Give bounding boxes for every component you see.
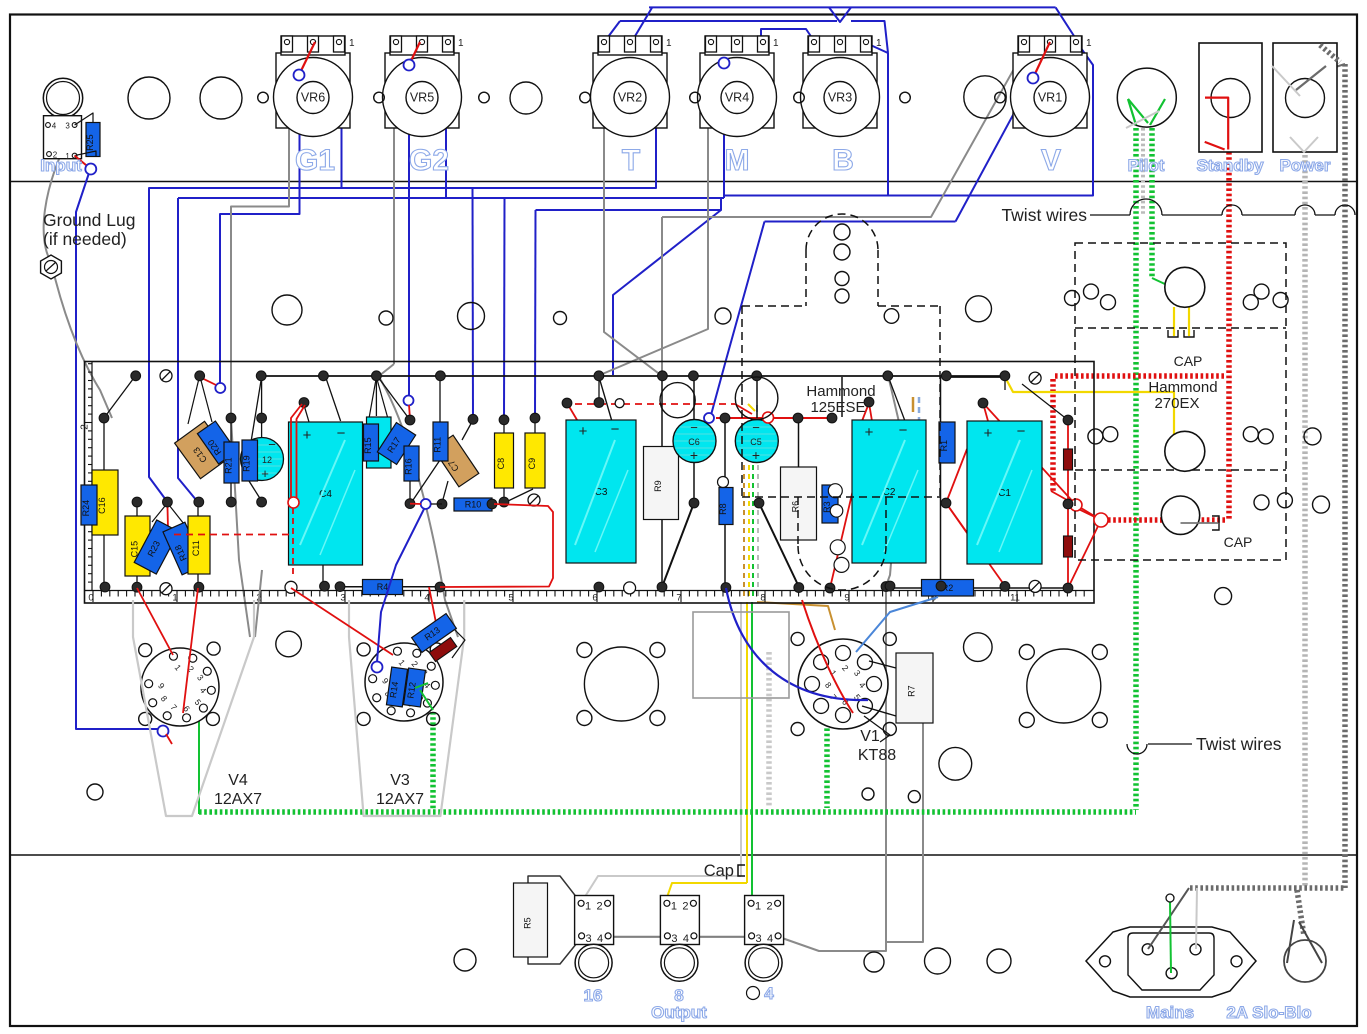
svg-text:−: − — [337, 425, 346, 442]
svg-text:270EX: 270EX — [1154, 395, 1199, 412]
svg-text:R21: R21 — [224, 457, 234, 474]
svg-text:+: + — [984, 425, 993, 442]
svg-text:3: 3 — [586, 933, 592, 945]
svg-text:R24: R24 — [81, 500, 91, 517]
svg-text:R19: R19 — [242, 455, 252, 472]
svg-text:Output: Output — [651, 1003, 707, 1022]
svg-text:4: 4 — [424, 593, 429, 604]
svg-text:3: 3 — [65, 122, 70, 131]
svg-text:VR5: VR5 — [410, 91, 434, 105]
svg-text:0: 0 — [88, 593, 93, 604]
svg-text:R11: R11 — [433, 437, 443, 453]
svg-text:11: 11 — [1010, 593, 1020, 604]
svg-text:R25: R25 — [85, 134, 95, 151]
svg-text:VR2: VR2 — [618, 91, 642, 105]
svg-text:+: + — [579, 423, 588, 440]
svg-text:12AX7: 12AX7 — [214, 791, 262, 808]
svg-text:R4: R4 — [377, 582, 389, 592]
svg-text:(if needed): (if needed) — [43, 229, 127, 249]
svg-text:VR1: VR1 — [1038, 91, 1062, 105]
svg-text:R6: R6 — [791, 501, 801, 513]
svg-text:G1: G1 — [295, 144, 335, 177]
svg-text:V: V — [1041, 144, 1061, 177]
svg-text:8: 8 — [760, 593, 765, 604]
svg-text:4: 4 — [52, 122, 57, 131]
svg-text:+: + — [690, 447, 698, 463]
svg-text:−: − — [690, 420, 698, 435]
svg-text:M: M — [725, 144, 750, 177]
svg-text:Twist wires: Twist wires — [1196, 734, 1282, 754]
svg-text:R10: R10 — [465, 500, 482, 510]
svg-text:9: 9 — [844, 593, 849, 604]
svg-text:2A Slo-Blo: 2A Slo-Blo — [1226, 1003, 1311, 1022]
svg-text:G2: G2 — [409, 144, 449, 177]
svg-text:+: + — [261, 466, 269, 481]
svg-text:4: 4 — [764, 984, 774, 1003]
svg-text:4: 4 — [767, 933, 773, 945]
svg-text:12: 12 — [262, 455, 272, 465]
svg-text:Standby: Standby — [1196, 156, 1264, 175]
svg-text:2: 2 — [682, 900, 688, 912]
svg-text:T: T — [622, 144, 640, 177]
svg-text:C11: C11 — [191, 540, 201, 556]
svg-text:1: 1 — [666, 38, 672, 49]
svg-text:−: − — [611, 421, 620, 438]
svg-text:3: 3 — [671, 933, 677, 945]
svg-text:12AX7: 12AX7 — [376, 791, 424, 808]
svg-text:R15: R15 — [363, 437, 373, 454]
svg-text:5: 5 — [508, 593, 513, 604]
svg-text:VR4: VR4 — [725, 91, 749, 105]
svg-text:Hammond: Hammond — [806, 383, 875, 400]
svg-text:R7: R7 — [907, 685, 917, 697]
svg-text:16: 16 — [584, 986, 603, 1005]
svg-text:3: 3 — [340, 593, 345, 604]
svg-text:1: 1 — [1086, 38, 1092, 49]
svg-text:125ESE: 125ESE — [810, 399, 865, 416]
svg-text:R8: R8 — [718, 503, 728, 515]
svg-text:C5: C5 — [750, 437, 762, 447]
svg-text:+: + — [865, 424, 874, 441]
svg-text:V3: V3 — [390, 772, 410, 789]
svg-text:R9: R9 — [653, 480, 663, 492]
svg-text:−: − — [899, 422, 908, 439]
svg-text:2: 2 — [80, 424, 91, 430]
svg-text:4: 4 — [683, 933, 689, 945]
svg-text:R5: R5 — [523, 917, 533, 929]
svg-text:V1: V1 — [860, 728, 880, 745]
svg-text:1: 1 — [671, 900, 677, 912]
svg-text:−: − — [1017, 423, 1026, 440]
svg-text:KT88: KT88 — [858, 747, 896, 764]
svg-text:C6: C6 — [688, 437, 700, 447]
svg-text:C8: C8 — [496, 458, 506, 470]
svg-text:1: 1 — [876, 38, 882, 49]
svg-text:3: 3 — [756, 933, 762, 945]
svg-text:VR6: VR6 — [301, 91, 325, 105]
svg-text:Input: Input — [40, 156, 82, 175]
svg-text:1: 1 — [172, 593, 177, 604]
svg-text:1: 1 — [755, 900, 761, 912]
svg-text:C16: C16 — [97, 497, 107, 514]
svg-text:VR3: VR3 — [828, 91, 852, 105]
svg-text:1: 1 — [585, 900, 591, 912]
svg-text:2: 2 — [597, 900, 603, 912]
svg-text:−: − — [752, 420, 760, 435]
svg-text:V4: V4 — [228, 772, 248, 789]
svg-text:7: 7 — [676, 593, 681, 604]
svg-text:1: 1 — [458, 38, 464, 49]
svg-text:B: B — [832, 144, 854, 177]
svg-text:1: 1 — [773, 38, 779, 49]
svg-text:R16: R16 — [404, 458, 414, 475]
svg-text:Twist wires: Twist wires — [1001, 205, 1087, 225]
svg-text:Ground Lug: Ground Lug — [43, 210, 135, 230]
svg-text:1: 1 — [349, 38, 355, 49]
svg-text:Power: Power — [1279, 156, 1330, 175]
svg-text:+: + — [752, 447, 760, 463]
svg-text:C9: C9 — [527, 458, 537, 470]
svg-text:Cap: Cap — [704, 862, 734, 880]
svg-text:Pilot: Pilot — [1128, 156, 1165, 175]
svg-text:4: 4 — [597, 933, 603, 945]
svg-text:CAP: CAP — [1174, 353, 1203, 369]
svg-text:2: 2 — [767, 900, 773, 912]
svg-text:Hammond: Hammond — [1148, 379, 1217, 396]
svg-text:CAP: CAP — [1224, 534, 1253, 550]
svg-text:Mains: Mains — [1146, 1003, 1194, 1022]
svg-text:+: + — [303, 427, 312, 444]
svg-text:6: 6 — [592, 593, 597, 604]
svg-text:−: − — [268, 437, 276, 452]
